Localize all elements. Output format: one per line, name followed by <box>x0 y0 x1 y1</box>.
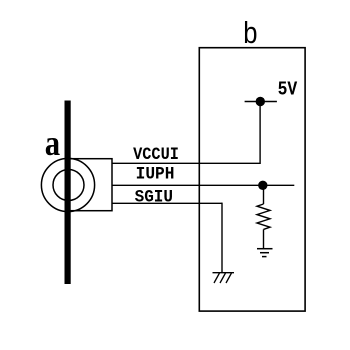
sensor outer circle <box>41 158 94 211</box>
svg-text:IUPH: IUPH <box>136 165 175 185</box>
resistor R zigzag <box>257 204 270 229</box>
5V stub wire <box>245 101 277 103</box>
wire SGIU <box>112 202 222 204</box>
svg-text:b: b <box>243 16 257 49</box>
wire IUPH <box>112 184 294 186</box>
svg-text:a: a <box>45 124 61 164</box>
sensor inner circle <box>53 170 84 201</box>
wire VCCUI <box>112 162 260 164</box>
resistor R lead top <box>263 185 265 204</box>
box b <box>199 48 305 311</box>
svg-text:VCCUI: VCCUI <box>133 144 179 164</box>
node dot 5V <box>256 97 265 106</box>
sensor terminal box <box>67 159 113 211</box>
wire SGIU drop <box>221 203 223 273</box>
svg-text:5V: 5V <box>278 80 298 101</box>
resistor R lead bottom <box>263 229 265 248</box>
earth ground <box>257 249 273 257</box>
chassis ground <box>213 273 235 283</box>
wire riser to 5V node <box>259 102 261 165</box>
junction dot IUPH <box>258 181 267 190</box>
conductor a (primary wire) <box>64 101 70 285</box>
svg-text:SGIU: SGIU <box>135 188 173 208</box>
